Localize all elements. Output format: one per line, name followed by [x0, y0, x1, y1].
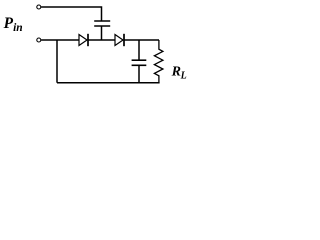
resistor RL zigzag with leads	[154, 40, 163, 83]
terminal bottom input	[37, 38, 41, 42]
svg-text:P: P	[4, 15, 14, 32]
capacitor C1 top plate	[94, 20, 110, 22]
diode D2 cathode bar	[123, 34, 125, 46]
label RL	[171, 65, 187, 82]
wire ground rail bottom	[57, 82, 160, 84]
capacitor C1 bottom plate	[94, 25, 110, 27]
wire top rail from terminal to corner and down to C1	[41, 7, 101, 21]
terminal top input	[37, 5, 41, 9]
capacitor C2 bottom plate	[132, 64, 147, 66]
diode D1 cathode bar	[87, 34, 89, 46]
wire node A to diode D2	[88, 39, 116, 41]
diode D2 triangle	[115, 35, 123, 46]
wire from C1 down to node A	[101, 26, 103, 40]
svg-text:L: L	[180, 71, 187, 82]
svg-text:in: in	[13, 22, 23, 34]
wire from output node down to capacitor C2	[138, 40, 140, 60]
diode D1 triangle	[79, 35, 87, 46]
svg-text:R: R	[171, 65, 181, 80]
wire capacitor C2 to ground rail	[138, 65, 140, 82]
wire left drop to ground rail	[56, 40, 58, 83]
label Pin	[4, 15, 23, 34]
wire diode D2 to output corner	[124, 39, 160, 41]
wire bottom input to diode D1	[41, 39, 79, 41]
capacitor C2 top plate	[132, 59, 147, 61]
